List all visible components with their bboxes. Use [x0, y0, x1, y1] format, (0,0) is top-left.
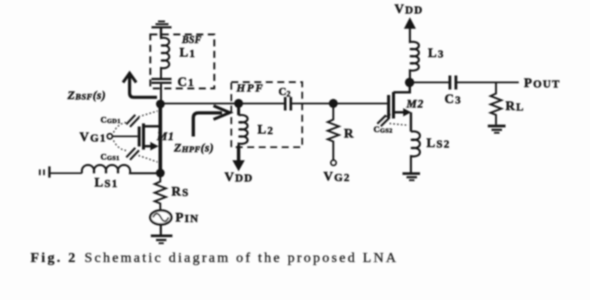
wire (C2 to M2 gate) — [292, 103, 388, 105]
svg-text:L1: L1 — [180, 45, 197, 60]
transistor M2 — [389, 84, 412, 132]
ground (top, above BSF) — [152, 21, 172, 37]
wire (C1 to node A) — [160, 84, 162, 104]
impedance arrow ZBSF(s) — [123, 73, 157, 97]
wire (port to LS1) — [50, 172, 82, 174]
inductor L2 — [237, 103, 240, 115]
svg-text:ZBSF(s): ZBSF(s) — [67, 88, 107, 102]
port (input termination) — [40, 166, 50, 177]
svg-text:C2: C2 — [279, 86, 291, 99]
node E (M2 drain node) — [405, 78, 414, 87]
svg-text:POUT: POUT — [524, 75, 561, 91]
svg-text:PIN: PIN — [176, 209, 200, 225]
inductor LS2 — [411, 131, 420, 172]
svg-text:ZHPF(s): ZHPF(s) — [173, 140, 214, 154]
BSF box (dashed) — [150, 34, 214, 88]
parasitic capacitor CGS1 — [114, 141, 158, 163]
inductor L3 — [410, 28, 419, 82]
parasitic capacitor CGD1 — [114, 111, 158, 133]
node A (M1 drain node) — [156, 100, 165, 109]
svg-text:RS: RS — [172, 184, 190, 200]
svg-text:VG1: VG1 — [80, 129, 107, 145]
svg-text:LS2: LS2 — [427, 135, 451, 151]
wire (C3 to POUT) — [457, 81, 519, 83]
source PIN — [150, 210, 171, 224]
svg-text:HPF: HPF — [236, 82, 265, 94]
node C (HPF input node) — [234, 99, 243, 108]
svg-text:L3: L3 — [428, 45, 445, 60]
inductor L1 — [161, 34, 169, 78]
wire (node E to C3) — [410, 81, 449, 83]
terminal VG1 — [107, 134, 112, 139]
capacitor C2 — [285, 97, 291, 111]
svg-text:C3: C3 — [445, 91, 462, 106]
ground (below RL) — [488, 126, 506, 133]
wire (node A to C2) — [160, 103, 284, 105]
VDD arrow (below L2) — [232, 146, 244, 172]
svg-text:LS1: LS1 — [95, 175, 119, 191]
node (M1 source / input node) — [156, 169, 165, 178]
HPF box (dashed) — [231, 82, 302, 147]
svg-text:Fig. 2Schematic diagram of the: Fig. 2Schematic diagram of the proposed … — [31, 251, 399, 266]
capacitor C1 — [152, 78, 172, 80]
ground (below LS2) — [403, 174, 421, 181]
svg-text:VDD: VDD — [225, 169, 254, 185]
inductor LS1 — [82, 165, 160, 173]
transistor M1 — [113, 104, 161, 173]
svg-text:RL: RL — [506, 98, 525, 114]
svg-text:VG2: VG2 — [324, 168, 351, 184]
resistor RS — [155, 173, 166, 211]
svg-text:M1: M1 — [156, 131, 175, 143]
svg-text:R: R — [344, 126, 355, 141]
svg-text:CGD1: CGD1 — [101, 114, 121, 125]
svg-text:CGS1: CGS1 — [101, 151, 120, 162]
svg-text:M2: M2 — [406, 98, 425, 110]
resistor R — [328, 103, 339, 160]
terminal VG2 — [331, 160, 336, 165]
ground (below PIN) — [151, 236, 173, 243]
VDD arrow (top) — [404, 17, 416, 29]
capacitor C3 — [450, 76, 456, 90]
parasitic capacitor CGS2 — [377, 114, 408, 127]
svg-text:L2: L2 — [258, 122, 275, 137]
svg-text:VDD: VDD — [395, 1, 424, 17]
svg-text:C1: C1 — [178, 74, 195, 89]
wire (PIN to ground) — [160, 224, 162, 235]
resistor RL — [491, 82, 502, 124]
node D (R node) — [329, 99, 338, 108]
impedance arrow ZHPF(s) — [193, 106, 230, 137]
